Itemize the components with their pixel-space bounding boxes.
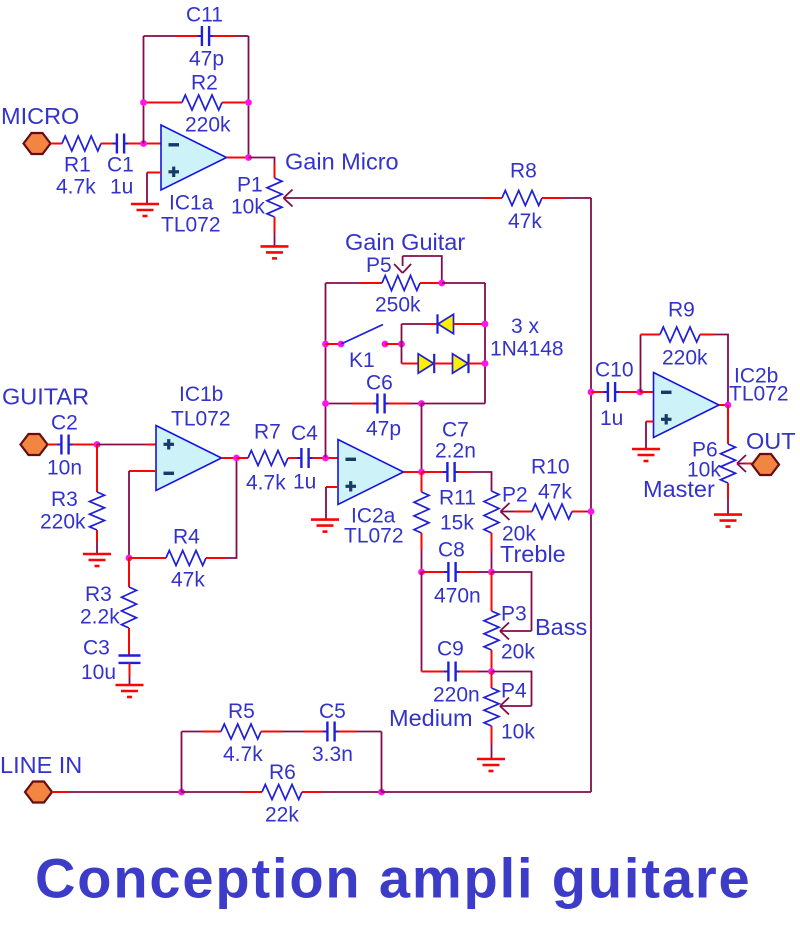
wire: [491, 650, 493, 672]
svg-text:TL072: TL072: [161, 214, 221, 237]
wire: [128, 143, 161, 145]
wire: [97, 444, 146, 446]
svg-text:220k: 220k: [662, 347, 708, 370]
wire: [101, 143, 113, 145]
wire: [326, 343, 342, 345]
svg-text:Conception ampli guitare: Conception ampli guitare: [35, 847, 751, 910]
ground: [116, 684, 144, 687]
wire: [469, 363, 486, 365]
svg-text:47p: 47p: [366, 418, 401, 441]
resistor R9: [660, 327, 700, 342]
resistor R10: [532, 504, 572, 519]
op-amp IC2a: [338, 440, 404, 505]
svg-text:1u: 1u: [110, 176, 133, 199]
svg-text:OUT: OUT: [746, 428, 796, 454]
wire: [402, 323, 427, 325]
wire: [421, 572, 423, 672]
wire: [422, 403, 486, 405]
wire: [146, 102, 182, 104]
svg-text:R1: R1: [64, 154, 91, 177]
capacitor C2: [60, 435, 62, 455]
potentiometer P3: [484, 611, 499, 650]
svg-text:C5: C5: [319, 700, 346, 723]
resistor R8: [502, 191, 542, 206]
wiper arrow P6: [737, 455, 746, 464]
svg-text:P1: P1: [237, 174, 263, 197]
node junction: [378, 789, 385, 796]
wire: [182, 731, 203, 733]
wire: [401, 324, 403, 364]
capacitor C9: [447, 662, 449, 682]
svg-text:22k: 22k: [265, 804, 299, 827]
diode D2 1N4148: [418, 354, 434, 373]
wire: [237, 457, 249, 459]
wire loop P4: [492, 672, 532, 707]
svg-text:C6: C6: [366, 372, 393, 395]
wire: [129, 557, 166, 559]
resistor R4: [166, 551, 206, 566]
node junction: [418, 400, 425, 407]
wire: [128, 558, 130, 587]
capacitor C8: [447, 562, 449, 582]
wire: [422, 671, 445, 673]
svg-text:R6: R6: [269, 761, 296, 784]
svg-text:1u: 1u: [600, 407, 623, 430]
svg-text:4.7k: 4.7k: [223, 743, 263, 766]
capacitor C5: [326, 722, 328, 742]
node junction: [588, 389, 595, 396]
svg-text:R3: R3: [85, 583, 112, 606]
wire: [313, 457, 338, 459]
wire: [129, 663, 131, 676]
wire: [737, 463, 745, 465]
ground: [311, 518, 339, 521]
wire: [302, 791, 322, 793]
potentiometer P1: [267, 178, 282, 217]
svg-text:10u: 10u: [81, 661, 116, 684]
wire: [48, 444, 58, 446]
op-amp IC2b: [654, 373, 720, 438]
potentiometer P5: [382, 276, 420, 291]
svg-text:C1: C1: [107, 154, 134, 177]
capacitor C3: [119, 654, 141, 656]
wire: [213, 35, 235, 37]
svg-text:LINE IN: LINE IN: [0, 752, 82, 778]
wire bus: [590, 198, 592, 792]
svg-text:GUITAR: GUITAR: [2, 384, 89, 410]
wire: [385, 343, 402, 345]
svg-text:R9: R9: [668, 299, 695, 322]
svg-text:R5: R5: [228, 700, 255, 723]
wire: [389, 403, 410, 405]
wire: [146, 173, 148, 205]
wire: [52, 791, 68, 793]
node junction: [488, 668, 495, 675]
node junction: [245, 154, 252, 161]
wire: [128, 628, 130, 655]
node A junction: [140, 140, 147, 147]
wire: [483, 197, 502, 199]
svg-text:47k: 47k: [508, 210, 542, 233]
svg-text:3 x: 3 x: [511, 315, 540, 338]
svg-text:Treble: Treble: [500, 541, 566, 567]
svg-text:220n: 220n: [433, 684, 480, 707]
wire: [422, 471, 444, 473]
svg-text:R2: R2: [191, 72, 218, 95]
ground: [261, 245, 289, 248]
connector MICRO: [24, 133, 51, 154]
svg-text:470n: 470n: [434, 585, 481, 608]
svg-text:4.7k: 4.7k: [56, 176, 96, 199]
wire: [459, 471, 470, 473]
node junction: [398, 341, 405, 348]
svg-text:C11: C11: [186, 4, 223, 27]
wire: [382, 791, 592, 793]
svg-text:3.3n: 3.3n: [312, 743, 353, 766]
svg-text:2.2k: 2.2k: [80, 606, 120, 629]
node junction: [588, 508, 595, 515]
wire: [727, 405, 729, 444]
node junction: [438, 280, 445, 287]
wire: [325, 487, 327, 520]
potentiometer P6: [721, 444, 736, 483]
svg-text:C3: C3: [83, 637, 110, 660]
wire: [454, 323, 486, 325]
wire: [284, 197, 484, 199]
ground: [131, 203, 159, 206]
wire: [73, 444, 97, 446]
switch K1 lever: [341, 325, 383, 345]
wire: [640, 391, 654, 393]
wire: [326, 403, 353, 405]
node junction: [382, 341, 389, 348]
svg-text:4.7k: 4.7k: [246, 472, 286, 495]
wire: [422, 571, 445, 573]
wiper arrow P5: [394, 264, 403, 273]
wire: [719, 404, 728, 406]
node junction: [322, 400, 329, 407]
node junction: [482, 321, 489, 328]
svg-text:IC1a: IC1a: [169, 192, 214, 215]
svg-text:TL072: TL072: [729, 383, 789, 406]
wire loop P3: [492, 572, 532, 631]
svg-text:C7: C7: [442, 419, 469, 442]
resistor R3 2.2k: [122, 587, 137, 628]
wire: [442, 282, 485, 284]
diode D3 1N4148: [453, 354, 469, 373]
wire: [591, 391, 604, 393]
svg-text:10k: 10k: [231, 196, 265, 219]
svg-text:R11: R11: [439, 487, 476, 510]
svg-text:C8: C8: [438, 539, 465, 562]
wire: [491, 672, 493, 689]
capacitor C7: [446, 462, 448, 482]
wire: [261, 731, 282, 733]
node junction: [637, 389, 644, 396]
wire: [421, 472, 423, 492]
capacitor C1: [116, 134, 118, 154]
wire: [515, 511, 533, 513]
capacitor C4: [300, 448, 302, 468]
resistor R1: [62, 136, 101, 151]
wire: [404, 471, 422, 473]
svg-text:Medium: Medium: [389, 705, 473, 731]
node junction: [338, 341, 345, 348]
resistor R6: [262, 785, 302, 800]
node junction: [488, 569, 495, 576]
wire: [288, 457, 298, 459]
op-amp IC1b: [156, 426, 222, 491]
wire: [572, 511, 585, 513]
ground: [83, 553, 111, 556]
wire: [641, 334, 661, 336]
node junction: [418, 469, 425, 476]
svg-text:15k: 15k: [440, 512, 474, 535]
potentiometer P2: [484, 491, 499, 533]
wire: [640, 335, 642, 393]
wire: [646, 421, 654, 423]
wire: [326, 486, 338, 488]
capacitor C10: [607, 382, 609, 402]
wire: [491, 726, 493, 743]
node junction: [233, 455, 240, 462]
wire: [222, 457, 237, 459]
op-amp IC1a: [161, 125, 227, 190]
svg-text:2.2n: 2.2n: [435, 440, 476, 463]
svg-text:C10: C10: [595, 359, 634, 382]
svg-text:P2: P2: [502, 484, 528, 507]
wire: [381, 732, 383, 793]
svg-text:Bass: Bass: [535, 614, 587, 640]
svg-text:47k: 47k: [171, 569, 205, 592]
wire branch: [181, 732, 183, 793]
svg-text:K1: K1: [349, 349, 375, 372]
wire: [421, 404, 423, 473]
resistor R2: [182, 95, 222, 110]
resistor R3 220k: [90, 492, 105, 530]
wire: [249, 158, 275, 165]
node junction: [126, 555, 133, 562]
svg-text:Gain Guitar: Gain Guitar: [345, 229, 465, 255]
svg-text:P5: P5: [366, 254, 392, 277]
wire: [143, 36, 145, 144]
svg-text:R10: R10: [531, 456, 570, 479]
node junction: [94, 441, 101, 448]
wire: [248, 36, 250, 158]
wire: [96, 530, 98, 542]
wire: [619, 391, 640, 393]
ground: [632, 448, 660, 451]
node junction: [322, 455, 329, 462]
wire: [144, 35, 177, 37]
wire: [51, 143, 63, 145]
svg-text:10k: 10k: [501, 721, 535, 744]
wire: [402, 363, 419, 365]
wire: [128, 471, 130, 558]
wire: [421, 533, 423, 550]
wire: [129, 470, 156, 472]
svg-text:10n: 10n: [47, 457, 82, 480]
svg-text:250k: 250k: [375, 294, 421, 317]
wire: [700, 334, 714, 336]
svg-text:P4: P4: [501, 680, 527, 703]
wire: [460, 571, 478, 573]
capacitor C6: [376, 394, 378, 414]
wire: [491, 533, 493, 551]
potentiometer P4: [484, 688, 499, 726]
node junction: [725, 402, 732, 409]
connector GUITAR: [21, 434, 48, 455]
svg-text:47p: 47p: [189, 48, 224, 71]
wiper arrow P4: [500, 698, 509, 707]
wire: [147, 172, 161, 174]
svg-text:C2: C2: [51, 412, 78, 435]
svg-text:R7: R7: [254, 421, 281, 444]
wire: [96, 445, 98, 493]
svg-text:Gain Micro: Gain Micro: [285, 149, 399, 175]
svg-text:Master: Master: [643, 476, 715, 502]
resistor R11: [414, 492, 429, 533]
wire: [420, 282, 442, 284]
connector LINE IN: [25, 782, 52, 803]
wiper arrow P3: [500, 623, 509, 632]
wire: [542, 197, 563, 199]
capacitor C11: [201, 26, 203, 46]
wire rail right: [484, 283, 486, 404]
ground: [714, 513, 742, 516]
wire: [227, 157, 249, 159]
svg-text:R4: R4: [173, 526, 200, 549]
node junction: [140, 99, 147, 106]
diode D1 1N4148: [438, 314, 454, 333]
node junction: [178, 789, 185, 796]
wiper arrow P1: [284, 190, 293, 199]
wire: [326, 282, 362, 284]
wire: [182, 791, 244, 793]
svg-text:MICRO: MICRO: [1, 103, 79, 129]
wire: [403, 256, 442, 283]
wire: [206, 557, 226, 559]
wire: [434, 363, 452, 365]
wire: [274, 217, 276, 233]
wire: [460, 671, 478, 673]
svg-text:C9: C9: [437, 638, 464, 661]
svg-text:220k: 220k: [185, 114, 231, 137]
ground: [477, 758, 505, 761]
svg-text:R8: R8: [510, 160, 537, 183]
wire: [222, 102, 246, 104]
svg-text:IC1b: IC1b: [179, 383, 223, 406]
node junction: [418, 569, 425, 576]
wire: [645, 422, 647, 450]
svg-text:C4: C4: [291, 422, 318, 445]
connector OUT: [752, 454, 779, 475]
svg-text:1N4148: 1N4148: [490, 338, 564, 361]
svg-text:P3: P3: [501, 603, 527, 626]
svg-text:220k: 220k: [40, 511, 86, 534]
resistor R5: [221, 724, 261, 739]
svg-text:TL072: TL072: [344, 525, 404, 548]
svg-text:20k: 20k: [501, 641, 535, 664]
svg-text:R3: R3: [51, 488, 78, 511]
svg-text:TL072: TL072: [171, 408, 231, 431]
node junction: [245, 99, 252, 106]
svg-text:1u: 1u: [293, 471, 316, 494]
node junction: [482, 360, 489, 367]
resistor R7: [248, 451, 288, 466]
node junction: [322, 341, 329, 348]
svg-text:47k: 47k: [538, 481, 572, 504]
wire: [491, 572, 493, 611]
wiper arrow P2: [501, 503, 510, 512]
wire: [727, 483, 729, 498]
wire: [339, 731, 357, 733]
wire rail left: [325, 283, 327, 458]
